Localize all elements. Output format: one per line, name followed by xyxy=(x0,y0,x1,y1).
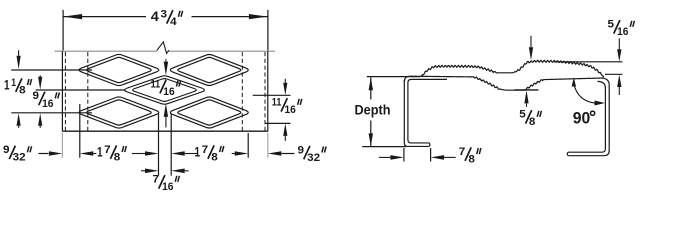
row1 centerline xyxy=(11,69,92,71)
left flange outer xyxy=(404,80,429,146)
left flange inner and lip xyxy=(408,79,447,146)
svg-text:32: 32 xyxy=(307,152,320,164)
arrow left into right corner xyxy=(268,151,282,156)
arrow down 5/8 xyxy=(529,47,533,60)
svg-text:7: 7 xyxy=(153,174,160,186)
svg-text:32: 32 xyxy=(13,152,26,164)
arrow up 1 1/8 xyxy=(17,113,21,126)
right dim bottom line xyxy=(265,122,291,124)
arrow left 4 3/4 xyxy=(63,14,82,19)
ext line bottom left corner (gray) xyxy=(61,133,63,158)
svg-text:4: 4 xyxy=(170,16,177,28)
arrow left 7/8 xyxy=(431,155,445,160)
extension line left for 4 3/4 xyxy=(62,10,64,51)
bend line dashed left inner xyxy=(87,52,89,131)
svg-text:1: 1 xyxy=(97,144,103,160)
arrow down right 11/16 xyxy=(283,83,287,96)
dim 1 7/8 left line xyxy=(96,153,98,155)
svg-text:16: 16 xyxy=(617,26,628,38)
arrow right 1 7/8 left xyxy=(145,151,159,156)
right flange outer xyxy=(568,78,609,156)
arrow down middle 11/16 xyxy=(164,62,168,76)
svg-text:1: 1 xyxy=(4,77,10,93)
svg-text:16: 16 xyxy=(162,181,173,193)
ext line lip end xyxy=(430,148,432,162)
dim line right 9/32 xyxy=(282,153,295,155)
dimension line 4 3/4 xyxy=(63,16,146,18)
plank left edge xyxy=(61,51,63,131)
svg-text:7: 7 xyxy=(459,146,466,158)
plank bottom edge xyxy=(62,130,268,132)
depth dimension line xyxy=(370,78,372,100)
diamond opening row1 right xyxy=(170,55,248,86)
svg-text:9: 9 xyxy=(3,144,10,156)
ext line flange outer face xyxy=(403,148,405,162)
svg-text:9: 9 xyxy=(33,90,40,102)
serration crest profile xyxy=(421,60,604,77)
arrow left 1 7/8 right xyxy=(171,151,185,156)
5/16 surface extension line xyxy=(605,73,623,75)
arrow down 9/16 xyxy=(38,77,42,90)
extension line right for 4 3/4 xyxy=(267,10,269,51)
arrow right 4 3/4 xyxy=(249,14,268,19)
svg-text:8: 8 xyxy=(114,152,121,164)
depth bottom extension line xyxy=(362,146,406,148)
diamond opening row2 left xyxy=(79,97,159,128)
plank right edge xyxy=(267,51,269,131)
depth top extension line xyxy=(367,76,421,78)
plank top edge (gray) xyxy=(55,50,157,52)
diamond opening row2 right xyxy=(170,97,248,128)
svg-text:Depth: Depth xyxy=(355,103,391,119)
diamond opening row1 left xyxy=(79,54,159,85)
svg-text:16: 16 xyxy=(163,86,174,98)
arrow up 5/8 xyxy=(524,90,528,103)
arrow right 7/8 xyxy=(390,155,404,160)
arrow up 5/16 xyxy=(617,75,621,88)
arrow up right 11/16 xyxy=(283,123,287,135)
dim line left 9/32 xyxy=(39,153,49,155)
right flange inner and lip xyxy=(567,81,605,155)
svg-text:5: 5 xyxy=(519,109,526,121)
bend line dashed right inner xyxy=(241,52,243,131)
angle arrow right xyxy=(595,101,606,106)
svg-text:90: 90 xyxy=(573,108,591,127)
arrow down 1 1/8 xyxy=(17,56,21,70)
svg-text:7: 7 xyxy=(104,144,111,156)
arrow down 5/16 xyxy=(617,49,621,62)
svg-text:16: 16 xyxy=(42,98,53,110)
bend line dashed right outer xyxy=(264,52,266,131)
row2 centerline xyxy=(11,112,92,114)
svg-text:8: 8 xyxy=(19,85,26,97)
angle arc xyxy=(574,84,597,104)
svg-text:7: 7 xyxy=(202,144,209,156)
5/16 crest extension line xyxy=(554,61,623,63)
right dim top line xyxy=(253,94,291,96)
arrow left 1 7/8 left xyxy=(80,151,94,156)
angle arrow up xyxy=(572,78,576,87)
depth arrow up xyxy=(369,77,373,90)
depth arrow down xyxy=(369,133,373,146)
5/8 reference bar xyxy=(515,89,539,91)
arrow up 9/16 xyxy=(38,113,42,126)
channel top surface profile xyxy=(404,76,603,90)
svg-text:4: 4 xyxy=(151,9,159,25)
svg-text:8: 8 xyxy=(468,154,475,166)
arrow right 1 7/8 right xyxy=(235,151,249,156)
svg-text:16: 16 xyxy=(285,104,296,116)
ext line bottom right corner (gray) xyxy=(267,133,269,158)
middle row centerline xyxy=(36,89,126,91)
diamond opening middle xyxy=(125,76,205,104)
arrow up middle 11/16 xyxy=(164,103,168,117)
svg-text:8: 8 xyxy=(211,152,218,164)
break mark zigzag xyxy=(157,42,169,54)
svg-text:8: 8 xyxy=(529,116,536,128)
svg-text:9: 9 xyxy=(298,144,305,156)
svg-text:1: 1 xyxy=(195,144,201,160)
svg-text:5: 5 xyxy=(608,19,615,31)
arrow right 7/16 xyxy=(145,169,159,174)
ext line bond left xyxy=(158,114,160,176)
ext line diamond right tip xyxy=(247,133,249,158)
ext line bond right xyxy=(170,114,172,176)
ext line diamond left tip xyxy=(79,104,81,158)
arrow left 7/16 xyxy=(171,169,185,174)
svg-text:3: 3 xyxy=(161,9,168,21)
svg-text:11: 11 xyxy=(272,97,282,109)
arrow right into left corner xyxy=(49,151,63,156)
svg-text:1: 1 xyxy=(11,77,16,89)
bend line dashed left outer xyxy=(64,52,66,131)
svg-text:11: 11 xyxy=(151,78,161,90)
